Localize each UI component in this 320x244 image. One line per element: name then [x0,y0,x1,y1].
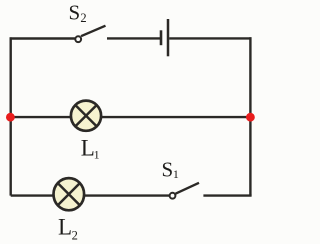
battery [161,19,168,56]
svg-text:1: 1 [94,148,100,162]
wire bottom branch from lamp L2 to switch S1 [84,194,170,196]
wire middle branch right segment [101,116,251,118]
wire bottom branch from switch S1 to right corner [203,194,251,196]
svg-text:L: L [58,214,72,239]
wire top from switch S2 to battery [107,37,160,39]
wire right vertical [249,37,251,195]
wire middle branch left segment [11,116,72,118]
switch S2 [75,26,105,42]
node left (red junction) [6,113,15,122]
svg-text:S: S [69,1,81,25]
svg-text:1: 1 [173,167,179,181]
wire bottom branch left segment [11,194,54,196]
switch S1 [170,183,199,199]
svg-text:2: 2 [72,228,78,242]
wire top from left corner to switch S2 [10,37,76,39]
wire top from battery to right corner [169,37,251,39]
lamp L2 [54,178,85,210]
wire left vertical [9,37,11,195]
lamp L1 [71,101,101,131]
svg-text:S: S [162,158,174,182]
svg-text:2: 2 [80,11,86,25]
node right (red junction) [246,113,255,122]
